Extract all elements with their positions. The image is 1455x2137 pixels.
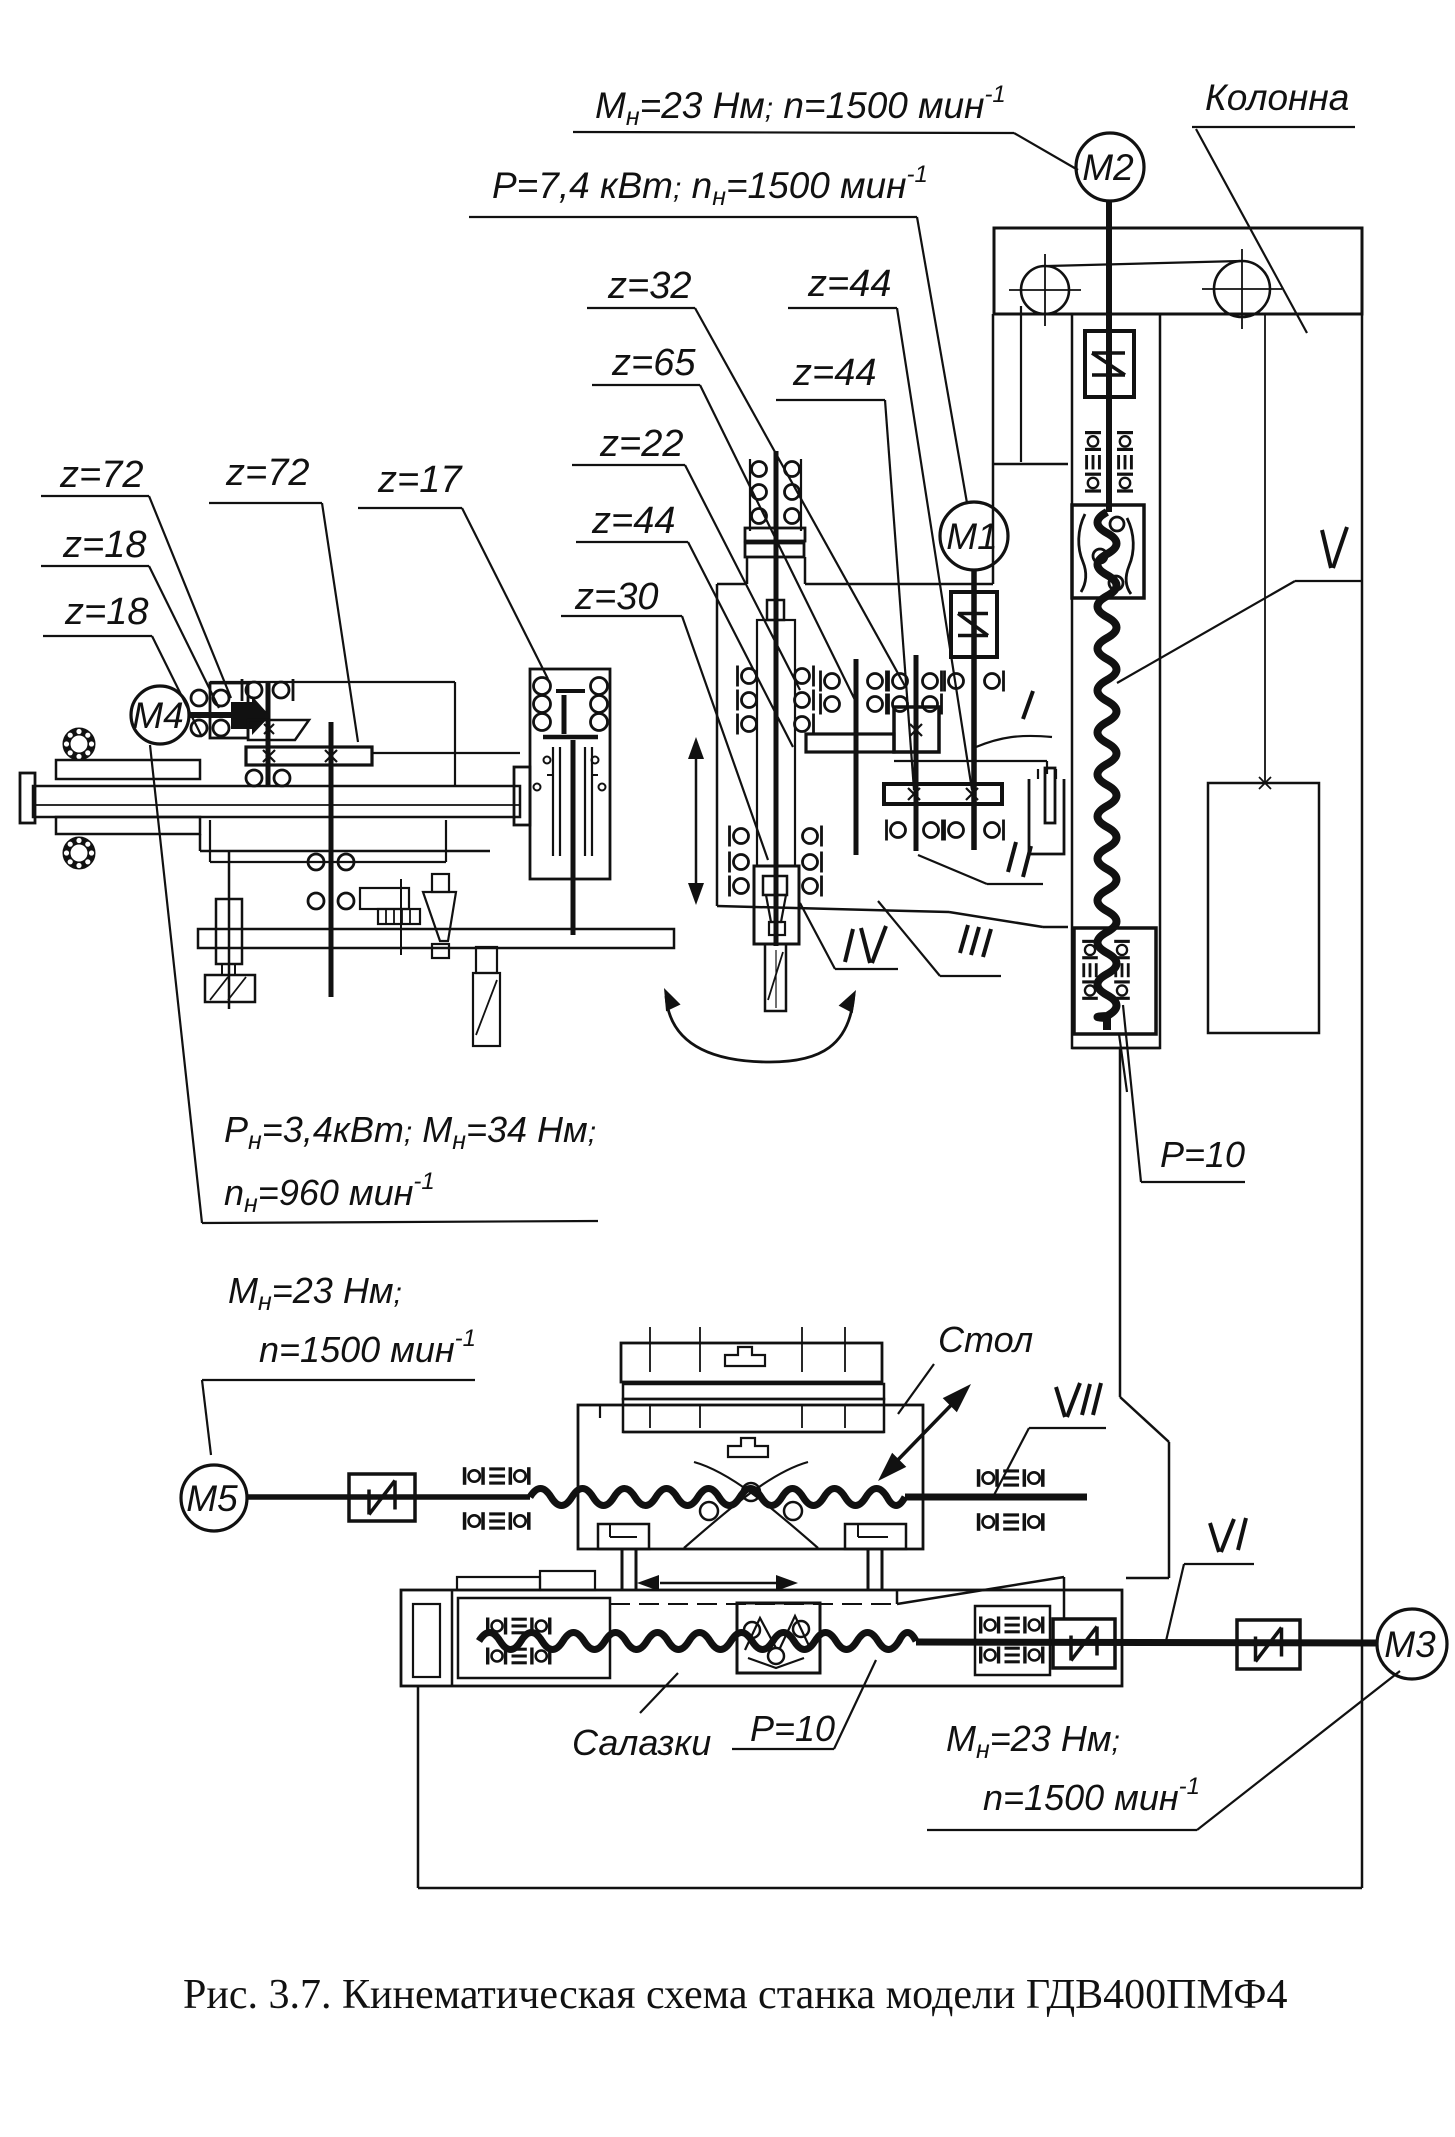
spindle left cap [20,773,35,823]
ball nut balls V [1110,517,1124,531]
leader shaft VI [1184,1563,1254,1565]
leader z=44 top right [788,307,897,309]
drill tool [765,944,786,1011]
label shaft II [1008,842,1016,872]
machine bottom edge [418,1887,1362,1890]
gear cluster bearings [191,690,207,706]
bevel I-beam [556,689,585,693]
bevel small pins [544,757,551,764]
M4 shaft stub [189,712,235,718]
svg-text:М5: М5 [186,1478,238,1519]
gear bar to X-block [806,734,894,752]
top bearing races [749,459,751,531]
saddle right post [867,1549,870,1590]
table tier 3 [623,1399,884,1432]
bearings shaft z65 upper [825,674,840,689]
leader shaft IV [800,903,835,969]
shaft section above nut [1106,397,1112,512]
gear coupling bar I-III [884,784,1002,804]
bevel collar [514,767,530,825]
bearing ring left lower [67,841,92,866]
label shaft I [1023,691,1033,719]
clutch on shaft of M2 [1085,331,1134,397]
leader shaft VII [1029,1427,1106,1429]
spline coupling M5 upper [465,1467,529,1485]
svg-text:z=32: z=32 [607,265,691,307]
shaft of M5 [247,1494,530,1500]
underline of M3 label [927,1829,1197,1831]
belt left run [1020,306,1022,462]
counterweight rope [1264,314,1266,783]
salazki nut box [737,1603,820,1673]
salazki top blocks [457,1577,540,1590]
salazki nut balls [744,1622,760,1638]
cross travel arrow [660,1582,776,1585]
leader z=30 [561,615,682,617]
spline coupling V lower left [1082,941,1098,998]
svg-text:Салазки: Салазки [572,1722,711,1763]
pulley housing box [994,228,1362,314]
bearings on vertical shaft [308,854,324,870]
leader Salazki [640,1673,678,1713]
table T-slot symbol [725,1347,765,1366]
leader from M2 label to motor M2 [573,132,1014,133]
leader shaft II [918,855,987,884]
upper arm [56,760,200,779]
screw guide rail [1072,314,1160,1048]
ball nut curves V [1079,514,1086,592]
bearings of vertical stub shaft [246,682,262,698]
label shaft V [1322,530,1331,568]
head top line [210,681,455,683]
vertical stub shaft [266,681,271,787]
feed screw vertical [228,851,231,1009]
salazki right trapezoid [897,1577,1064,1604]
svg-text:z=72: z=72 [59,454,143,496]
table screw nut balls [742,1483,760,1501]
shaft II support line [894,760,1047,762]
spline coupling VI right upper [981,1617,1043,1634]
leader Stol [898,1364,934,1414]
svg-text:М1: М1 [946,516,997,557]
spline coupling VI right lower [981,1647,1043,1664]
shaft of M2 vertical [1106,201,1112,506]
svg-text:М4: М4 [132,695,183,736]
spindle adjusting rings [745,528,805,541]
shaft I of M1 [971,570,977,850]
motor M2 [1076,133,1144,201]
spindle bearings lower right [803,829,818,844]
bevel sleeve lines [552,747,554,856]
table travel thick arrow [892,1398,958,1466]
spline coupling V upper right [1117,433,1133,491]
salazki nut zigzag [745,1618,776,1650]
bevel gear pair [248,720,309,740]
spindle rotation arc [666,994,854,1062]
svg-text:Рн=3,4кВт; Мн=34 Нм;: Рн=3,4кВт; Мн=34 Нм; [224,1109,596,1155]
svg-text:Мн=23 Нм; n=1500 мин-1: Мн=23 Нм; n=1500 мин-1 [595,81,1006,131]
screw VI straight section [916,1642,1377,1643]
column left wall [992,314,995,584]
clutch on screw VI outer [1237,1620,1300,1669]
bottom rail [198,929,674,948]
svg-text:z=72: z=72 [225,452,309,494]
shift fork arrow [231,696,270,735]
spindle IV axis [774,620,779,946]
gear z=65 shaft [854,659,859,855]
table tick lines [649,1327,651,1372]
svg-text:n=1500 мин-1: n=1500 мин-1 [259,1325,476,1370]
table top tier [621,1343,882,1382]
bevel box bearings [534,678,551,695]
ball screw VI wavy [479,1633,916,1650]
belt line [1048,261,1240,266]
svg-text:n=1500 мин-1: n=1500 мин-1 [983,1773,1200,1818]
svg-text:Мн=23 Нм;: Мн=23 Нм; [946,1718,1120,1764]
ball screw VII wavy [530,1489,905,1506]
leader z=18 second [43,635,152,637]
column right edge [1361,228,1364,1888]
machine bottom left edge [417,1686,420,1888]
spindle quill neck [767,600,784,620]
up-down feed arrow [695,748,698,894]
lower arm [56,817,200,834]
table screw nut curves [694,1462,818,1548]
svg-text:z=17: z=17 [377,459,463,501]
shaft III [914,655,919,851]
bearings shaft I upper [949,674,964,689]
vertical gear shaft of left head [329,722,334,997]
rope attachment mark [1259,777,1271,789]
leader z=32 [587,307,695,309]
svg-text:Колонна: Колонна [1205,77,1349,118]
feed gear shaft line [400,879,402,955]
spline coupling VI left upper [488,1618,550,1635]
counterweight box [1208,783,1319,1033]
table tier 2 [623,1384,884,1399]
spline coupling VI left lower [488,1648,550,1665]
motor M1 [940,502,1008,570]
label shaft IV [845,929,853,962]
salazki left spline box [458,1598,610,1678]
gear cluster box [210,683,248,738]
bevel box z=17/z=30 [530,669,610,879]
motor M4 [131,686,189,744]
bearings shaft III lower [891,823,906,838]
svg-text:z=30: z=30 [574,576,658,618]
salazki dashed centerline [610,1603,895,1605]
motor M5 [181,1465,247,1531]
svg-text:z=44: z=44 [792,352,876,394]
clutch on shaft I [951,592,997,657]
X shift block on shaft III [894,707,939,752]
svg-text:М3: М3 [1384,1624,1436,1665]
svg-text:Р=10: Р=10 [750,1708,835,1749]
leader from M4 to its label [150,745,202,1223]
label shaft III [960,925,968,953]
spline coupling M5 lower [465,1512,529,1530]
saddle left foot [598,1524,649,1549]
gear head housing [717,583,745,586]
leader z=72 second [209,502,322,504]
drill lower right [476,947,497,973]
lower gearbox outline [209,820,211,862]
svg-text:Стол: Стол [938,1319,1033,1360]
spindle bearings upper right [795,669,810,684]
leader to motor M5 [202,1380,211,1455]
spindle sleeve [757,620,795,866]
spindle bearings upper left [742,669,757,684]
motor M3 [1377,1609,1447,1679]
svg-text:Мн=23 Нм;: Мн=23 Нм; [228,1270,402,1316]
spindle top shaft [774,451,779,620]
pulley left [1021,266,1069,314]
ball nut box of screw V [1072,505,1144,598]
leader z=65 [592,384,700,386]
leader shaft V [1295,580,1362,582]
saddle right foot [845,1524,906,1549]
svg-text:z=44: z=44 [591,500,675,542]
svg-text:М2: М2 [1082,147,1134,188]
saddle box [578,1405,923,1549]
underline of M5 label [202,1379,475,1381]
top bearings right [785,462,800,477]
underline of M4 label [202,1221,598,1223]
pulley right [1214,261,1270,317]
svg-text:z=22: z=22 [599,423,683,465]
leader z=72 first [41,495,149,497]
spline coupling VII upper [979,1469,1043,1487]
screw VII straight end [905,1494,1087,1501]
leader z=22 [572,464,685,466]
head top shelf line [993,463,1068,466]
label shaft VII [1056,1387,1065,1417]
salazki left cap [451,1590,454,1686]
shaft II cylinder [1029,779,1064,854]
bearings shaft III upper [893,674,908,689]
leader shaft III [878,901,940,976]
spline coupling V upper left [1085,433,1101,491]
svg-text:z=65: z=65 [611,342,696,384]
leader from M1 label to motor M1 [469,216,917,218]
leader P=10 of screw VI [732,1748,834,1750]
leader P=10 of screw V [1141,1181,1245,1183]
leader z=17 [358,507,462,509]
ball screw V wavy [1098,512,1117,1018]
bevel step shoulders [547,774,553,776]
spindle neck [746,557,749,584]
gear bar with clutches M4 [246,747,372,765]
feed block [216,899,242,964]
screw V lower end [1103,1018,1111,1030]
bearing ring left upper [67,732,92,757]
bearings under gear bar [246,770,262,786]
svg-text:z=18: z=18 [62,524,146,566]
svg-text:Р=7,4 кВт; nн=1500 мин-1: Р=7,4 кВт; nн=1500 мин-1 [492,161,928,211]
gear housing line [372,752,520,754]
leader to motor M3 [1197,1671,1400,1830]
leader from Kolonna label to column [1192,126,1355,128]
cone plug [432,874,449,892]
label shaft VI [1210,1523,1219,1552]
spline coupling V lower right [1114,941,1130,998]
svg-text:Рис. 3.7. Кинематическая схема: Рис. 3.7. Кинематическая схема станка мо… [183,1972,1287,2018]
spindle bearings lower left [734,829,749,844]
clutch on M5 shaft [349,1474,415,1521]
horizontal spindle bar [33,786,520,817]
outline link to salazki [1126,1577,1169,1580]
svg-text:z=18: z=18 [64,591,148,633]
saddle left post [621,1549,624,1590]
gear cluster X [233,708,245,720]
leader z=44 left column [576,541,688,543]
leader z=44 second right [776,399,885,401]
saddle T-slot symbol [728,1438,768,1457]
table tier3 ticks [649,1406,651,1428]
clutch on screw VI inner [1053,1619,1115,1668]
salazki right spline box [975,1606,1050,1675]
lower spline box of screw V [1074,928,1156,1034]
salazki outer box [401,1590,1122,1686]
guide rail bottom line [1072,1047,1160,1050]
quill bottom block [754,866,799,944]
svg-text:z=44: z=44 [807,263,891,305]
hatched support [205,975,255,1002]
svg-text:Р=10: Р=10 [1160,1134,1245,1175]
machine lower-left outline [1119,1048,1122,1397]
leader z=18 first [41,565,149,567]
top bearings left [752,462,767,477]
spline coupling VII lower [979,1513,1043,1531]
leader shaft I [976,736,1052,747]
bearings shaft I lower [949,823,964,838]
teeth comb [360,888,409,909]
